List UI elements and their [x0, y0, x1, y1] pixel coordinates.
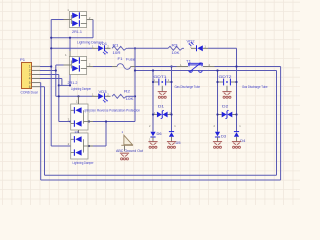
- junction node net1-A: [50, 37, 52, 39]
- svg-text:Lightning Damper: Lightning Damper: [84, 109, 96, 113]
- resistor R1: [112, 46, 128, 50]
- ground earth GDT1: [158, 91, 167, 93]
- surge damper U4 body: [71, 133, 88, 159]
- wire VD2 output down to rail A and GDT2 column: [208, 47, 237, 49]
- pin U1-2: [87, 19, 93, 21]
- junction node x106: [105, 120, 107, 122]
- svg-text:VD1: VD1: [99, 42, 107, 46]
- svg-text:Reverse Polarization Protectio: Reverse Polarization Protection: [97, 109, 140, 113]
- wire net2 from connector pin2 to damper U2 left pin and VD3 row: [40, 70, 56, 72]
- pin U1-1: [64, 19, 70, 21]
- diode D4 clamp up: [234, 131, 239, 133]
- svg-text:6: 6: [29, 85, 31, 89]
- ground earth GDT2: [222, 91, 231, 93]
- svg-text:R1: R1: [113, 44, 119, 48]
- svg-text:GDT1: GDT1: [154, 75, 167, 79]
- ground earth D3: [213, 141, 222, 143]
- wire x135 riser and U3 U4 right pin wires: [134, 48, 136, 121]
- junction node rail A x236: [235, 65, 237, 67]
- svg-text:10K: 10K: [126, 97, 135, 101]
- pin U4 right: [88, 145, 93, 147]
- ground earth flag: [120, 152, 129, 154]
- svg-text:GDT2: GDT2: [219, 75, 232, 79]
- ground earth D6: [148, 141, 157, 143]
- wire GDT1 right column: [171, 67, 173, 132]
- junction node D1-1: [152, 113, 154, 115]
- junction node net3-damper2: [58, 84, 60, 86]
- fuse F1: [112, 66, 117, 68]
- connector P1 pins: [32, 65, 41, 67]
- svg-text:D1: D1: [158, 105, 164, 109]
- svg-text:Lightning Damper: Lightning Damper: [73, 161, 95, 165]
- gas discharge tube GDT2: [218, 81, 224, 83]
- diode element U4b: [75, 150, 81, 156]
- diode VD2: [191, 47, 197, 49]
- junction node net2 tee: [55, 69, 57, 71]
- connector P1 body: [22, 63, 32, 89]
- pin U3-U4 link: [78, 130, 80, 133]
- svg-text:ABC Ground Out: ABC Ground Out: [116, 149, 143, 153]
- svg-text:2R1.2: 2R1.2: [68, 81, 78, 85]
- resistor R3: [168, 46, 184, 50]
- junction node x135 rail B: [134, 69, 136, 71]
- ground earth D5: [167, 141, 176, 143]
- pin U2-1 top: [69, 51, 71, 57]
- junction node x135 row2: [134, 95, 136, 97]
- junction node GDT2-2: [235, 81, 237, 83]
- diode element U2a: [72, 58, 78, 64]
- junction node net3-row: [58, 95, 60, 97]
- gas discharge tube GDT1: [153, 81, 158, 83]
- pin U2 left: [64, 64, 70, 66]
- junction node U4 right: [88, 145, 90, 147]
- svg-text:Gas Discharge Tube: Gas Discharge Tube: [175, 85, 201, 89]
- wire comp U2 top pin to net1 loop: [69, 38, 71, 51]
- svg-text:10R: 10R: [113, 51, 122, 55]
- diode element U1a: [72, 13, 78, 19]
- wire R1 row middle: [128, 47, 168, 49]
- surge damper U1 internal links: [70, 16, 72, 24]
- junction node D1-2: [170, 113, 172, 115]
- pin U3 right: [88, 121, 93, 123]
- svg-text:D3: D3: [221, 134, 226, 138]
- junction node rail B x153: [152, 69, 154, 71]
- wire net4 from connector pin4 joining damper U2 bottom wire: [40, 78, 62, 80]
- junction node rail B x217: [216, 69, 218, 71]
- surge damper U3 internal links: [83, 110, 85, 123]
- diode element U1b: [72, 20, 78, 26]
- svg-text:CON6 Dual: CON6 Dual: [21, 91, 38, 95]
- diode VD3: [92, 95, 98, 97]
- surge damper U2 internal links: [70, 61, 72, 69]
- svg-text:R3: R3: [172, 44, 178, 48]
- diode element U2b: [72, 65, 78, 71]
- diode element U3a: [75, 107, 81, 113]
- wire net6 inner loop connector pin6 bottom rail right rail B: [40, 86, 45, 88]
- wire net5 outer loop connector pin5 bottom rail right rail to T1 pin2: [39, 82, 42, 84]
- junction node net1-C: [50, 65, 52, 67]
- svg-text:T1: T1: [186, 59, 191, 63]
- diode D3 clamp down: [215, 132, 220, 137]
- wire GDT1 left column: [152, 71, 154, 132]
- junction node U3 left pin: [69, 120, 71, 122]
- diode element U3b: [75, 121, 81, 127]
- junction node D2-1: [216, 113, 218, 115]
- junction node GDT2-1: [216, 81, 218, 83]
- diode D5 clamp up: [169, 131, 174, 133]
- pin U2 right: [87, 66, 93, 68]
- junction node net1-B: [50, 47, 52, 49]
- surge damper U1 body: [69, 12, 86, 28]
- ground earth D4: [232, 141, 241, 143]
- transformer T1: [177, 66, 189, 68]
- surge damper U2 body: [69, 57, 86, 75]
- junction node D2-2: [235, 113, 237, 115]
- pin U3 top: [78, 96, 80, 104]
- resistor R2: [112, 94, 128, 98]
- diode D6 clamp down: [150, 132, 155, 137]
- diode element U4a: [75, 136, 81, 142]
- svg-text:R2: R2: [124, 89, 130, 93]
- wire net3 from connector pin3 to damper U2 bottom and damper U3 left pin: [40, 74, 59, 76]
- surge damper U4 internal links: [83, 139, 85, 152]
- junction node U3 top pin: [77, 95, 79, 97]
- junction node U2 bottom: [69, 84, 71, 86]
- svg-text:VD2: VD2: [187, 39, 195, 43]
- wire rail A fuse segment U2 to T1: [93, 66, 112, 68]
- svg-text:F1: F1: [118, 57, 123, 61]
- svg-text:2R1.1: 2R1.1: [72, 30, 82, 34]
- svg-text:10K: 10K: [172, 51, 181, 55]
- svg-text:Gas Discharge Tube: Gas Discharge Tube: [242, 85, 268, 89]
- junction node U3 right: [88, 120, 90, 122]
- junction node rail A x171: [170, 65, 172, 67]
- svg-text:D2: D2: [222, 105, 228, 109]
- diode VD1: [92, 47, 98, 49]
- svg-text:VD3: VD3: [99, 90, 107, 94]
- wire R2 row right: [128, 95, 135, 97]
- TVS diode D2: [218, 114, 222, 116]
- junction node U2 top: [69, 37, 71, 39]
- svg-text:D5: D5: [176, 141, 181, 145]
- flag ground marker: [124, 135, 132, 145]
- junction node GDT1-1: [152, 81, 154, 83]
- wire net1 from connector pin1 to damper U1 and R1 row and damper U4 left pin: [40, 66, 51, 68]
- svg-text:Fuse: Fuse: [126, 57, 135, 61]
- svg-text:P1: P1: [20, 58, 25, 62]
- junction node x135 top: [134, 47, 136, 49]
- wire GDT2 left column: [217, 71, 219, 132]
- junction node GDT1-2: [170, 81, 172, 83]
- svg-text:D6: D6: [157, 132, 162, 136]
- svg-text:Lightning Damper: Lightning Damper: [71, 87, 92, 91]
- TVS diode D1: [153, 114, 157, 116]
- surge damper U3 body: [71, 104, 88, 130]
- svg-text:2A.: 2A.: [75, 130, 81, 134]
